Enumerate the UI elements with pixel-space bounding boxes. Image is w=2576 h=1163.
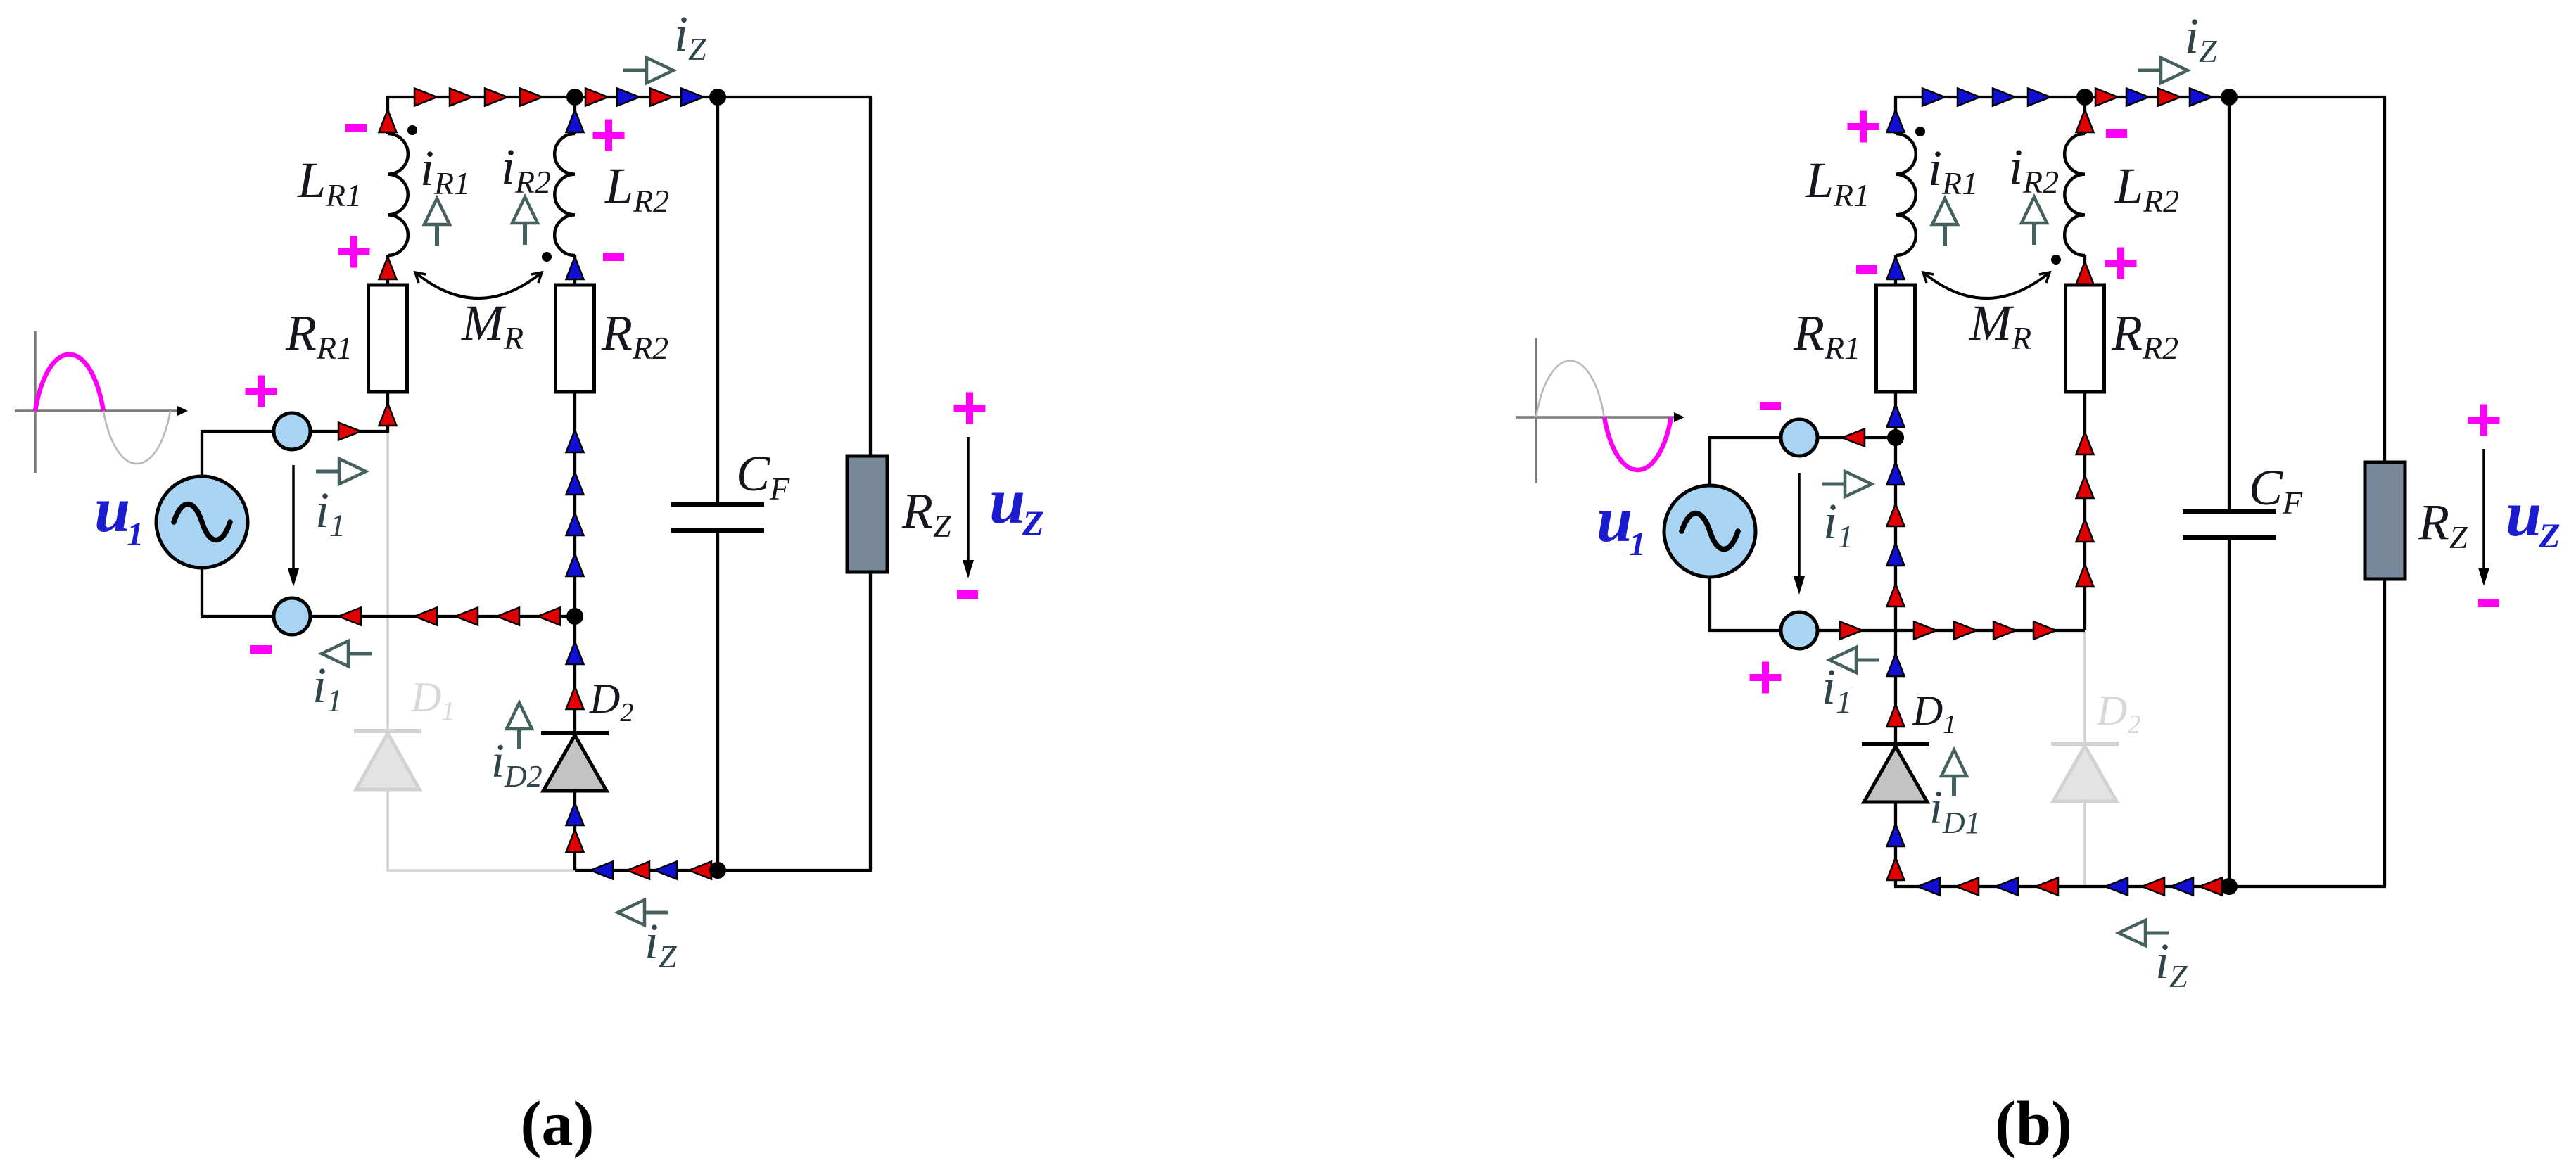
- ghost diode D2 (b): [2051, 744, 2119, 801]
- wire L_R1 branch (a): [386, 97, 389, 433]
- hollow arrow i1 top (b): [1822, 483, 1845, 486]
- junction dot top C_F (b): [2221, 89, 2238, 106]
- terminal node top (b): [1781, 419, 1817, 456]
- current arrows top bus right (a): [585, 89, 704, 106]
- junction dot top C_F (a): [709, 89, 726, 106]
- current arrows D1 branch (b): [1887, 462, 1905, 880]
- wire bottom bus (b): [1894, 885, 2386, 888]
- hollow arrow iZ top (b): [2138, 69, 2161, 72]
- terminal node top (a): [274, 413, 310, 450]
- wire source loop (a): [201, 431, 575, 616]
- junction dot bottom C_F (a): [709, 862, 726, 879]
- mutual coupling arrow M_R (a): [415, 272, 542, 298]
- polarity minus uZ (a): [957, 590, 978, 599]
- polarity plus uZ (a): [954, 393, 986, 424]
- wire capacitor C_F branch (a): [716, 97, 719, 870]
- ghost diode D1 branch wire (a): [386, 433, 575, 870]
- current arrows L_R2 branch (a): [566, 110, 584, 576]
- hollow arrow iD2 (a): [517, 729, 521, 749]
- hollow arrow i1 bottom (a): [348, 652, 372, 656]
- inductor L_R2 (a): [554, 134, 575, 255]
- polarity minus L_R2 bottom (a): [603, 253, 624, 261]
- dot mark L_R1 (b): [1915, 127, 1925, 136]
- terminal node bottom (b): [1781, 612, 1817, 649]
- polarity minus L_R2 top (b): [2106, 129, 2127, 138]
- wire L_R2 branch (b): [2083, 97, 2086, 630]
- resistor R_R1 (b): [1877, 285, 1915, 392]
- junction dot mid node (b): [1887, 429, 1904, 446]
- capacitor C_F (b): [2183, 511, 2276, 538]
- svg-text:(a): (a): [521, 1089, 595, 1159]
- polarity minus source bottom (a): [250, 645, 272, 654]
- svg-text:(b): (b): [1995, 1089, 2072, 1159]
- resistor R_R2 (b): [2066, 285, 2105, 392]
- sine waveform inset (a): [15, 331, 188, 473]
- wire L_R2 branch (a): [573, 97, 576, 616]
- diode D2 (a): [541, 733, 609, 791]
- wire capacitor C_F branch (b): [2228, 97, 2231, 886]
- hollow arrow iR2 (b): [2032, 223, 2036, 245]
- current arrows L_R1 branch (b): [1887, 110, 1905, 427]
- junction dot bottom C_F (b): [2221, 878, 2238, 895]
- wire top bus (b): [1894, 96, 2386, 98]
- hollow arrow iZ top (a): [623, 69, 647, 72]
- polarity plus L_R1 bottom (a): [338, 236, 370, 268]
- current arrow mid wire (b): [1842, 429, 1865, 447]
- hollow arrow iR1 (b): [1943, 224, 1947, 246]
- polarity minus L_R1 top (a): [345, 124, 367, 132]
- current arrows L_R1 branch (a): [379, 110, 397, 426]
- hollow arrow iR1 (a): [435, 224, 439, 246]
- current arrows bottom wire (a): [338, 608, 560, 625]
- inductor L_R1 (a): [388, 134, 408, 255]
- current arrows top bus left (a): [414, 89, 543, 106]
- wire bottom bus (a): [575, 869, 872, 872]
- ghost diode D2 branch wire (b): [2083, 632, 2086, 886]
- polarity plus source top (a): [246, 376, 277, 407]
- junction dot bottom node (a): [566, 608, 583, 625]
- terminal node bottom (a): [274, 598, 310, 635]
- load resistor R_Z (a): [847, 456, 887, 572]
- resistor R_R2 (a): [556, 285, 595, 392]
- current arrows bottom bus (a): [590, 862, 711, 879]
- hollow arrow iR2 (a): [523, 223, 527, 245]
- current arrow mid wire (a): [338, 423, 361, 440]
- capacitor C_F (a): [671, 504, 764, 530]
- sine waveform inset (b): [1516, 338, 1684, 483]
- polarity minus source top (b): [1760, 402, 1781, 410]
- mutual coupling arrow M_R (b): [1923, 272, 2050, 298]
- polarity plus source bottom (b): [1750, 662, 1782, 694]
- wire diode D1 branch (b): [1894, 438, 1897, 886]
- wire L_R1 branch (b): [1894, 97, 1897, 438]
- polarity minus L_R1 bottom (b): [1856, 265, 1877, 274]
- voltage arrow uZ (b): [2482, 449, 2485, 572]
- wire load branch R_Z (b): [2383, 97, 2386, 886]
- current arrows top bus right (b): [2095, 89, 2212, 106]
- inductor L_R2 (b): [2064, 134, 2085, 255]
- polarity plus uZ (b): [2468, 405, 2500, 436]
- wire load branch R_Z (a): [869, 97, 872, 870]
- current arrows top bus left (b): [1922, 89, 2050, 106]
- dot mark L_R1 (a): [407, 125, 417, 135]
- ghost diode D1 (a): [354, 731, 421, 789]
- junction dot top L_R2 (a): [566, 89, 583, 106]
- polarity plus L_R1 top (b): [1848, 111, 1879, 143]
- resistor R_R1 (a): [369, 285, 407, 392]
- source u1 (a): [156, 476, 248, 568]
- current arrow i1 source (b): [1798, 473, 1801, 580]
- inductor L_R1 (b): [1896, 134, 1916, 255]
- diode D1 (b): [1862, 744, 1929, 802]
- current arrows L_R2 branch (b): [2076, 110, 2094, 587]
- dot mark L_R2 (b): [2051, 255, 2061, 265]
- hollow arrow i1 top (a): [316, 470, 339, 474]
- current arrows D2 branch (a): [566, 642, 584, 852]
- hollow arrow i1 bottom (b): [1856, 659, 1879, 662]
- junction dot top L_R2 (b): [2076, 89, 2093, 106]
- polarity plus L_R2 top (a): [593, 120, 625, 151]
- wire diode D2 branch (a): [573, 616, 576, 870]
- hollow arrow iZ bottom (a): [645, 911, 668, 915]
- polarity plus L_R2 bottom (b): [2105, 248, 2137, 279]
- current arrows bottom wire (b): [1840, 622, 2056, 640]
- source u1 (b): [1664, 485, 1756, 577]
- load resistor R_Z (b): [2365, 462, 2405, 579]
- current arrow i1 source (a): [292, 465, 295, 573]
- hollow arrow iD1 (b): [1952, 776, 1956, 796]
- wire source loop (b): [1708, 438, 2085, 630]
- wire top bus (a): [386, 96, 872, 98]
- hollow arrow iZ bottom (b): [2145, 932, 2169, 935]
- dot mark L_R2 (a): [542, 252, 552, 262]
- polarity minus uZ (b): [2478, 599, 2499, 607]
- voltage arrow uZ (a): [967, 437, 970, 564]
- current arrows bottom bus (b): [1917, 878, 2222, 896]
